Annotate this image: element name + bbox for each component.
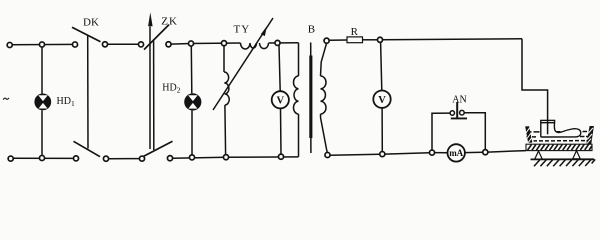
wire secondary top to R [329,39,347,41]
ground support triangle left [535,151,543,159]
svg-text:R: R [351,26,359,38]
DK linkage bar [87,35,89,149]
svg-text:HD2: HD2 [162,82,180,94]
ZK linkage bar [153,40,155,150]
insulating boot test specimen [541,120,581,137]
switch DK bottom blade [74,141,101,156]
wire bottom rail left section [10,157,76,159]
wire HD2 branch lower [191,111,193,156]
water dashes row B [527,136,589,138]
HV lead down to boot [522,39,548,121]
node ZK top-right contact [166,42,171,47]
wire HD1 branch lower [41,110,43,155]
node AN branch left junction [429,150,434,155]
node TY bottom junction [223,155,228,160]
svg-text:V: V [378,95,386,106]
svg-text:AN: AN [452,94,466,105]
transformer B primary winding [293,43,298,157]
earth line [531,158,595,160]
node HD2 bottom junction [189,155,194,160]
svg-text:B: B [308,24,315,36]
wire junction to mA [434,152,447,154]
svg-text:DK: DK [83,17,99,29]
AC source tilde [3,98,9,100]
wire mA to junction [465,151,483,153]
wire top rail to HV corner [382,38,522,41]
switch ZK bottom blade [144,141,173,156]
node HD1 bottom junction [39,155,44,160]
autotransformer TY horizontal winding [241,43,269,49]
pushbutton AN stem [456,102,458,118]
wire V2 branch lower [381,108,383,152]
HV electrode inside boot [547,120,549,135]
node source terminal top [7,42,12,47]
node HD2 top junction [188,41,193,46]
vat right wall [586,126,594,144]
wire bottom rail middle section [172,157,298,158]
wire V1 branch lower [280,108,283,154]
node ZK bottom-right contact [167,156,172,161]
ZK trip shaft [149,27,151,150]
lamp HD2 [184,93,201,110]
switch ZK top blade [144,25,169,50]
node TY top junction [221,41,226,46]
voltmeter V2 [373,91,390,108]
wire top rail left section [10,43,76,45]
ground support triangle right [573,151,581,159]
voltmeter V1 [272,91,289,108]
pushbutton AN contacts [450,111,454,115]
svg-text:ZK: ZK [161,15,178,27]
wire bottom DK to ZK [108,158,139,160]
node source terminal bottom [8,156,13,161]
vat left wall [525,126,532,143]
wire top rail middle section [171,43,241,44]
node DK top-right contact [102,42,107,47]
switch DK top blade [72,27,101,42]
node AN branch right junction [483,150,488,155]
earth hatching [534,159,595,166]
node DK top-left contact [72,42,77,47]
vat floor band [526,144,592,150]
transformer B core bar [310,43,312,154]
lamp HD1 [34,94,51,111]
svg-text:TY: TY [234,23,251,35]
svg-text:HD1: HD1 [57,96,75,108]
node DK bottom-left contact [73,156,78,161]
water surface dashes row A [527,132,590,141]
ZK arrow head [148,12,153,26]
wire top rail to transformer B [269,42,299,44]
wire junction to vat [488,151,526,153]
node DK bottom-right contact [103,156,108,161]
wire top DK to ZK [107,43,138,45]
node V2 top junction [377,37,382,42]
node HD1 top junction [39,42,44,47]
TY wiper arrow [213,18,273,110]
resistor R [347,37,363,43]
node B secondary bottom terminal [325,152,330,157]
svg-text:V: V [277,96,285,107]
pushbutton AN branch right riser [464,113,485,150]
node ZK bottom-left contact [139,156,144,161]
transformer B secondary winding [321,43,328,152]
pushbutton AN bridge bar [451,117,467,119]
node ZK top-left contact [138,42,143,47]
autotransformer TY vertical winding branch [224,46,229,155]
wire secondary bottom rail [330,153,430,156]
node V1 top junction [275,40,280,45]
node B secondary top terminal [324,38,329,43]
milliammeter mA [448,144,465,161]
wire V1 branch upper [279,45,280,91]
wire HD1 branch upper [41,47,43,94]
svg-text:mA: mA [449,148,463,158]
wire HD2 branch upper [190,46,193,93]
wire R to junction [363,39,378,41]
wire V2 branch upper [381,42,382,90]
node V2 bottom junction [380,152,385,157]
water dashes row C [528,140,589,142]
pushbutton AN branch left riser [432,113,450,150]
node V1 bottom junction [278,154,283,159]
